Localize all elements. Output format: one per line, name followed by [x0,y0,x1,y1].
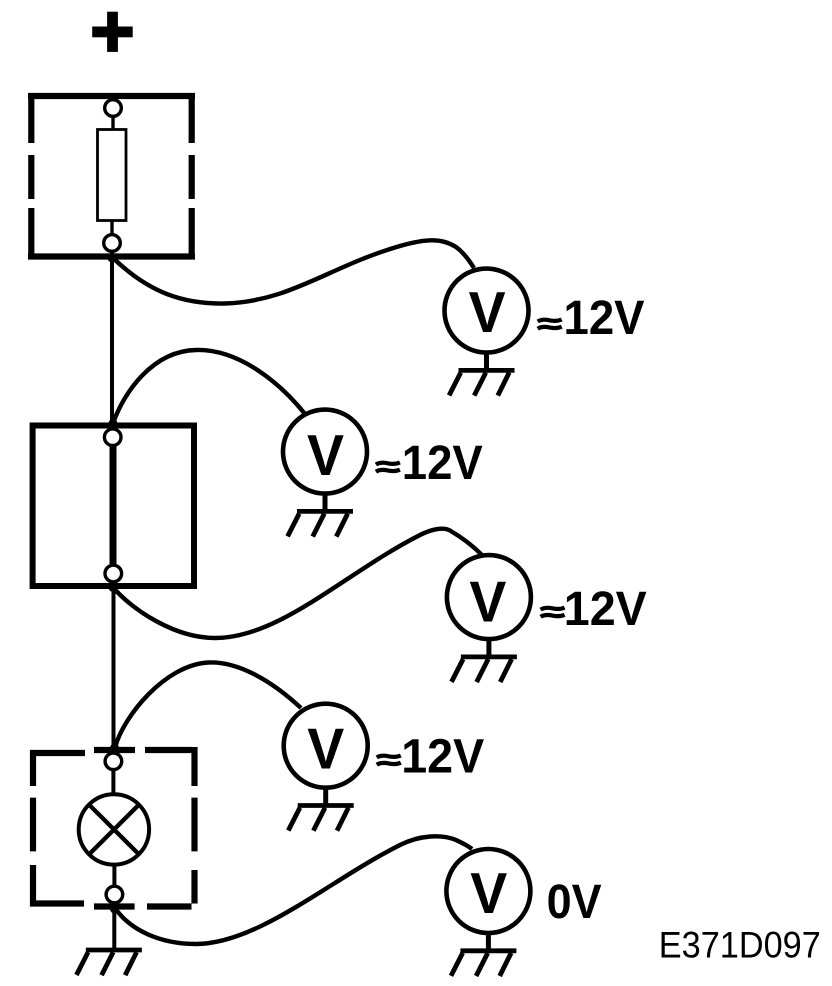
switch contacts [104,429,121,582]
svg-text:12V: 12V [564,583,647,636]
lamp box (dashed component boundary) [33,747,195,907]
label: V2 reading approx 12V [376,463,400,472]
voltmeter V1 [445,269,529,396]
svg-text:V: V [307,718,344,782]
svg-text:V: V [470,862,507,926]
node B: junction at top of switch box [109,419,118,428]
voltmeter V3 [447,555,531,682]
voltmeter V5 [446,849,530,976]
label: V1 reading approx 12V [538,320,562,329]
circuit ground [76,950,141,975]
svg-text:12V: 12V [564,292,645,345]
node C: junction below switch box [109,583,118,592]
lamp L1 with connector pins [79,753,149,908]
wire curve: node D to voltmeter V4 [116,662,302,746]
wire curve: node B to voltmeter V2 [114,350,306,422]
svg-text:0V: 0V [547,876,602,929]
wire: lamp box to circuit ground [112,908,116,950]
node E: junction below lamp box [110,905,119,914]
svg-text:12V: 12V [402,437,483,490]
fuse box (dashed component boundary) [28,93,195,259]
node A: junction below fuse box [108,254,117,263]
wire curve: node E to voltmeter V5 [115,836,472,944]
wire: fuse box to switch box [110,257,114,426]
node D: junction at top of lamp box [110,744,119,753]
voltmeter V4 [284,704,368,831]
wire curve: node C to voltmeter V3 [113,529,483,638]
svg-text:V: V [307,424,344,488]
svg-text:E371D097: E371D097 [659,924,821,966]
voltmeter V2 [283,410,367,537]
svg-text:12V: 12V [401,731,484,784]
svg-text:V: V [469,281,506,345]
wire curve: node A to voltmeter V1 [112,240,474,303]
label: V3 reading approx 12V [541,608,565,617]
wire: switch box to lamp box [112,586,116,751]
svg-text:V: V [469,570,506,634]
battery plus terminal [92,12,133,52]
switch box (solid component boundary) [33,426,194,587]
label: V4 reading approx 12V [377,756,401,765]
fuse F1 [98,100,127,257]
